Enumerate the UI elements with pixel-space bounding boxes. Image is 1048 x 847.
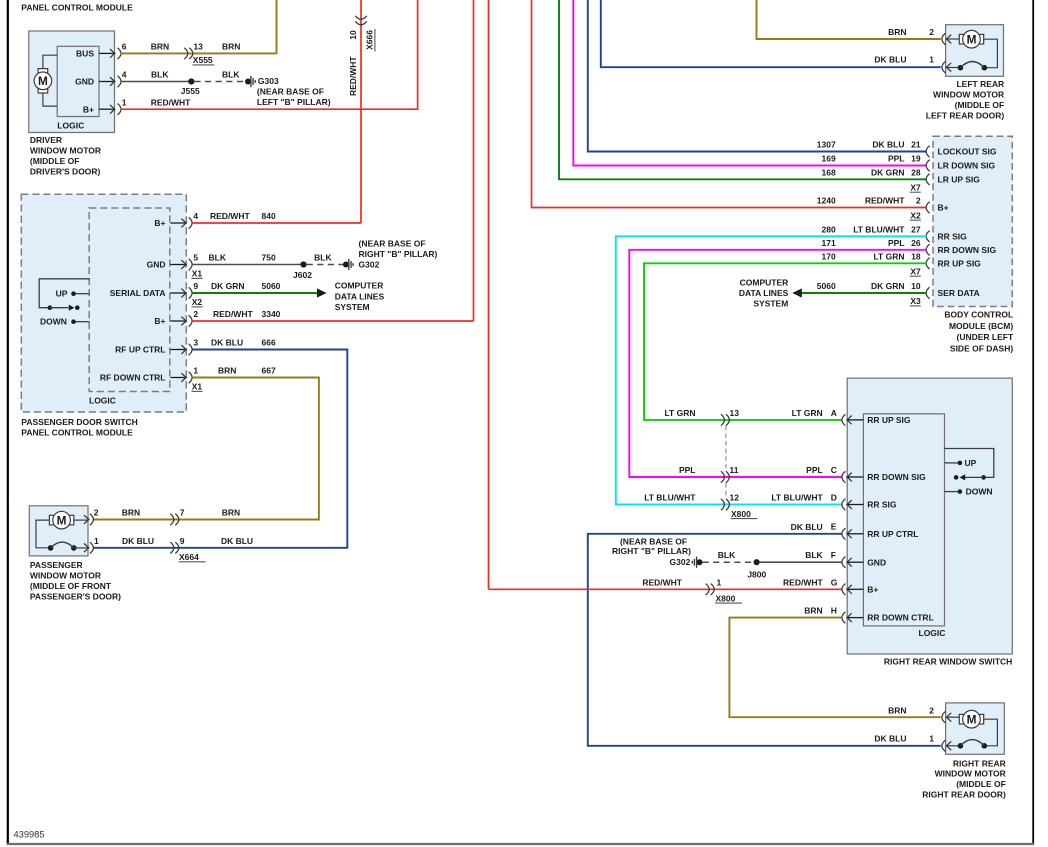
svg-text:X800: X800 (731, 509, 751, 519)
BCM pin 28 connector (926, 174, 930, 185)
wire RED/WHT 1240 vertical feed to BCM B+ (532, 0, 927, 208)
svg-text:2: 2 (929, 705, 934, 715)
ground G303 (245, 79, 251, 85)
left rear motor pin 2 connector and arrow (942, 33, 946, 44)
motor lead and brush return (left rear) (983, 39, 997, 67)
switch pin C connector and arrow (842, 471, 846, 482)
svg-text:SIDE OF DASH): SIDE OF DASH) (950, 343, 1013, 353)
connector X800 dashed alignment line (725, 426, 727, 471)
passenger switch pin GND (5) stub and arrow (171, 264, 186, 266)
svg-text:B+: B+ (154, 218, 165, 228)
svg-text:7: 7 (180, 507, 185, 517)
svg-text:LT GRN: LT GRN (664, 408, 695, 418)
rocker switch wiper with dots and arrow (passenger switch) (48, 305, 53, 310)
svg-text:DK BLU: DK BLU (872, 140, 904, 150)
svg-text:1: 1 (94, 536, 99, 546)
svg-text:C: C (831, 465, 837, 475)
svg-text:M: M (967, 33, 977, 47)
svg-text:A: A (831, 408, 837, 418)
body control module BCM dashed box (933, 136, 1012, 306)
svg-text:DK BLU: DK BLU (874, 733, 906, 743)
svg-text:LEFT "B" PILLAR): LEFT "B" PILLAR) (257, 97, 331, 107)
svg-text:1: 1 (929, 733, 934, 743)
svg-text:10: 10 (348, 30, 358, 40)
svg-text:DK GRN: DK GRN (871, 281, 905, 291)
wire RED/WHT feed to right rear switch pin G B+ (489, 588, 843, 590)
svg-text:21: 21 (911, 140, 921, 150)
svg-text:RIGHT REAR: RIGHT REAR (953, 758, 1006, 768)
wire BLK 750 from passenger switch pin 5 GND to splice J602 (192, 264, 301, 266)
svg-text:X1: X1 (192, 382, 203, 392)
driver motor pin 6 BUS stub and arrow (99, 52, 114, 54)
driver window motor outer box (29, 31, 115, 133)
svg-text:X2: X2 (192, 297, 203, 307)
svg-text:PASSENGER: PASSENGER (30, 560, 83, 570)
connector X800 arcs on LT BLU/WHT (pin 12) (721, 499, 725, 510)
svg-text:LT BLU/WHT: LT BLU/WHT (771, 493, 823, 503)
svg-text:PPL: PPL (679, 465, 696, 475)
svg-text:11: 11 (730, 465, 739, 475)
svg-text:J602: J602 (293, 270, 312, 280)
passenger switch pin B+ (4) stub and arrow (171, 222, 186, 224)
switch pin D connector and arrow (842, 499, 846, 510)
svg-text:3: 3 (193, 338, 198, 348)
svg-text:BRN: BRN (222, 507, 240, 517)
right rear motor pin 1 connector and arrow (942, 740, 946, 751)
svg-text:B+: B+ (154, 316, 165, 326)
svg-text:DK BLU: DK BLU (122, 536, 154, 546)
svg-text:DATA LINES: DATA LINES (739, 288, 789, 298)
svg-text:(NEAR BASE OF: (NEAR BASE OF (257, 86, 324, 96)
svg-text:RED/WHT: RED/WHT (348, 56, 358, 96)
wire PPL 171 from BCM pin 26 to right rear switch pin C (629, 250, 926, 477)
svg-text:840: 840 (262, 211, 276, 221)
svg-text:PASSENGER DOOR SWITCH: PASSENGER DOOR SWITCH (21, 417, 138, 427)
motor M symbol (right rear window motor) (946, 716, 961, 718)
svg-text:RR UP SIG: RR UP SIG (867, 415, 911, 425)
wire RED/WHT from driver motor pin 1 B+ up to power feed (121, 0, 418, 109)
svg-text:LR UP SIG: LR UP SIG (938, 174, 981, 184)
svg-text:6: 6 (122, 41, 127, 51)
svg-text:RR SIG: RR SIG (867, 500, 897, 510)
svg-text:12: 12 (730, 493, 740, 503)
passenger switch pin RF DOWN CTRL (1) stub and arrow (171, 377, 186, 379)
motor lead and brush return (passenger) (36, 520, 50, 548)
svg-text:DK BLU: DK BLU (874, 54, 906, 64)
svg-text:(UNDER LEFT: (UNDER LEFT (957, 332, 1014, 342)
svg-text:(NEAR BASE OF: (NEAR BASE OF (359, 239, 426, 249)
wire DK GRN 168 from top to BCM pin 28 LR UP SIG (559, 0, 927, 179)
svg-text:DOWN: DOWN (966, 487, 993, 497)
BCM pin 27 connector (926, 231, 930, 242)
svg-text:RF UP CTRL: RF UP CTRL (115, 345, 165, 355)
svg-text:X1: X1 (192, 269, 203, 279)
svg-text:SER DATA: SER DATA (938, 288, 980, 298)
svg-text:169: 169 (822, 154, 836, 164)
wire DK BLU from top to left rear window motor pin 1 (601, 0, 941, 67)
svg-text:5060: 5060 (817, 281, 836, 291)
svg-text:DRIVER: DRIVER (30, 135, 62, 145)
switch pin A connector and arrow (842, 414, 846, 425)
svg-text:BRN: BRN (888, 27, 906, 37)
svg-text:(MIDDLE OF FRONT: (MIDDLE OF FRONT (30, 581, 112, 591)
svg-text:X666: X666 (364, 30, 374, 50)
svg-text:E: E (831, 522, 837, 532)
brush bridge arc with dots (left rear) (946, 67, 961, 69)
svg-text:13: 13 (193, 41, 203, 51)
passenger switch pin SERIAL DATA (9) stub and arrow (171, 292, 186, 294)
svg-text:X7: X7 (910, 182, 921, 192)
svg-text:1: 1 (717, 577, 722, 587)
svg-text:DOWN: DOWN (40, 316, 67, 326)
svg-text:1: 1 (193, 366, 198, 376)
svg-text:WINDOW MOTOR: WINDOW MOTOR (30, 571, 101, 581)
svg-text:X2: X2 (910, 210, 921, 220)
svg-text:1: 1 (122, 97, 127, 107)
wire BRN from right rear switch pin H to right rear motor pin 2 (729, 618, 940, 718)
svg-text:26: 26 (911, 238, 921, 248)
wire BLK dashed from G302 to splice J800 (703, 561, 754, 563)
svg-text:BLK: BLK (718, 550, 736, 560)
wire RED/WHT 10 through connector X666 down to passenger switch B+ (360, 0, 362, 223)
wire DK BLU 1307 from top to BCM pin 21 LOCKOUT SIG (588, 0, 927, 152)
svg-text:LT BLU/WHT: LT BLU/WHT (853, 224, 905, 234)
svg-text:RED/WHT: RED/WHT (865, 196, 905, 206)
wire BRN 667 from passenger switch pin 1 RF DOWN CTRL to passenger motor pin 2 (93, 378, 319, 520)
svg-text:RIGHT "B" PILLAR): RIGHT "B" PILLAR) (612, 546, 691, 556)
svg-text:2: 2 (929, 27, 934, 37)
connector X800 arcs on LT GRN (pin 13) (721, 414, 725, 425)
motor M1 symbol (driver window motor) (38, 69, 48, 73)
wire BLK from driver motor pin 4 to splice J555 (121, 81, 192, 83)
svg-text:SERIAL DATA: SERIAL DATA (110, 288, 166, 298)
switch pin F connector and arrow (842, 557, 846, 568)
svg-text:DK GRN: DK GRN (871, 167, 905, 177)
svg-text:RIGHT REAR DOOR): RIGHT REAR DOOR) (922, 789, 1006, 799)
passenger window motor box (29, 506, 88, 556)
motor M symbol (left rear window motor) (946, 38, 961, 40)
svg-text:BRN: BRN (804, 606, 822, 616)
svg-text:RR UP CTRL: RR UP CTRL (867, 529, 918, 539)
wire BLK from splice J800 to right rear switch pin F GND (760, 561, 843, 563)
svg-text:RR SIG: RR SIG (938, 231, 968, 241)
svg-text:M: M (38, 74, 48, 88)
svg-text:LOGIC: LOGIC (919, 628, 946, 638)
svg-text:RED/WHT: RED/WHT (210, 211, 250, 221)
brush bridge arc with dots (passenger) (48, 545, 54, 551)
svg-text:WINDOW MOTOR: WINDOW MOTOR (935, 769, 1006, 779)
svg-text:27: 27 (911, 224, 921, 234)
svg-text:19: 19 (911, 154, 921, 164)
wire LT GRN 170 from BCM pin 18 to right rear switch pin A (644, 263, 927, 420)
svg-text:MODULE (BCM): MODULE (BCM) (949, 321, 1013, 331)
svg-text:RIGHT "B" PILLAR): RIGHT "B" PILLAR) (359, 249, 438, 259)
svg-text:WINDOW MOTOR: WINDOW MOTOR (933, 90, 1004, 100)
BCM pin 19 connector (926, 160, 930, 171)
svg-text:280: 280 (822, 224, 836, 234)
svg-text:DK BLU: DK BLU (791, 522, 823, 532)
svg-text:1307: 1307 (817, 140, 836, 150)
svg-text:1: 1 (929, 54, 934, 64)
passenger door switch outer dashed box (21, 194, 186, 412)
svg-text:GND: GND (75, 77, 94, 87)
right rear window switch logic box (863, 414, 944, 626)
svg-text:170: 170 (822, 251, 836, 261)
rocker switch DOWN contact (right rear switch) (945, 491, 960, 493)
svg-text:439985: 439985 (14, 830, 45, 840)
wire BLK dashed from J602 to ground G302 (307, 264, 343, 266)
svg-text:DATA LINES: DATA LINES (335, 291, 385, 301)
rocker switch common bracket (right rear switch) (945, 449, 994, 478)
svg-text:13: 13 (730, 408, 740, 418)
svg-text:LT BLU/WHT: LT BLU/WHT (644, 493, 696, 503)
svg-text:GND: GND (147, 260, 166, 270)
passenger door switch logic dashed box (89, 208, 170, 392)
svg-text:4: 4 (193, 211, 198, 221)
svg-text:(MIDDLE OF: (MIDDLE OF (30, 156, 80, 166)
svg-text:J800: J800 (747, 569, 766, 579)
svg-text:BLK: BLK (209, 253, 227, 263)
svg-text:DK BLU: DK BLU (221, 536, 253, 546)
left rear motor pin 1 connector and arrow (942, 62, 946, 73)
svg-text:18: 18 (911, 251, 921, 261)
svg-text:G302: G302 (359, 260, 380, 270)
wire BLK dashed to ground G303 (194, 81, 245, 83)
svg-text:RR DOWN SIG: RR DOWN SIG (867, 472, 926, 482)
svg-text:RED/WHT: RED/WHT (783, 577, 823, 587)
passenger motor pin 2 arrow and connector (87, 519, 89, 521)
diagram frame bottom border (7, 843, 1034, 845)
svg-text:H: H (831, 606, 837, 616)
svg-text:BRN: BRN (218, 366, 236, 376)
svg-text:SYSTEM: SYSTEM (335, 302, 370, 312)
wire DK GRN 5060 from BCM pin 10 to computer data lines (arrow left) (794, 292, 927, 294)
svg-text:BLK: BLK (314, 253, 332, 263)
svg-text:PANEL CONTROL MODULE: PANEL CONTROL MODULE (21, 427, 133, 437)
svg-text:B+: B+ (867, 584, 878, 594)
svg-text:LEFT REAR DOOR): LEFT REAR DOOR) (926, 111, 1005, 121)
svg-text:2: 2 (94, 507, 99, 517)
rocker switch common bracket (passenger switch) (39, 279, 89, 308)
connector X666 inline arcs (vertical) (355, 16, 366, 19)
diagram frame left border (7, 0, 9, 845)
svg-text:UP: UP (56, 288, 68, 298)
connector X664 arcs on BRN (pin 7) (170, 514, 174, 525)
svg-text:BUS: BUS (76, 48, 94, 58)
svg-text:BLK: BLK (222, 70, 240, 80)
svg-text:GND: GND (867, 557, 886, 567)
svg-text:RED/WHT: RED/WHT (642, 577, 682, 587)
svg-text:BODY CONTROL: BODY CONTROL (944, 310, 1013, 320)
switch pin H connector and arrow (842, 612, 846, 623)
svg-text:PANEL CONTROL MODULE: PANEL CONTROL MODULE (21, 2, 133, 12)
wire PPL 169 from top to BCM pin 19 LR DOWN SIG (573, 0, 926, 166)
brush bridge arc with dots (right rear) (946, 745, 961, 747)
svg-text:B+: B+ (83, 104, 94, 114)
driver motor pin 1 B+ stub and arrow (99, 108, 114, 110)
driver window motor logic box (57, 46, 99, 116)
motor M symbol (passenger window motor) (49, 515, 53, 525)
svg-text:X664: X664 (179, 552, 199, 562)
wire RED/WHT vertical feed to passenger switch B+ 3340 (473, 0, 475, 321)
right rear window switch outer box (847, 378, 1012, 654)
connector X800 arcs on PPL (pin 11) (721, 471, 725, 482)
svg-text:DRIVER'S DOOR): DRIVER'S DOOR) (30, 167, 101, 177)
svg-text:168: 168 (822, 167, 836, 177)
svg-text:LR DOWN SIG: LR DOWN SIG (938, 161, 996, 171)
svg-text:G: G (831, 577, 838, 587)
rocker switch wiper with dots and arrow (981, 475, 986, 480)
right rear motor pin 2 connector and arrow (942, 712, 946, 723)
svg-text:BLK: BLK (805, 550, 823, 560)
svg-text:(MIDDLE OF: (MIDDLE OF (956, 779, 1006, 789)
svg-text:667: 667 (262, 366, 276, 376)
wire DK GRN 5060 serial data to computer data lines (arrow right) (192, 292, 317, 294)
svg-text:M: M (57, 514, 67, 528)
svg-text:666: 666 (262, 338, 276, 348)
svg-text:X555: X555 (193, 55, 213, 65)
svg-text:RIGHT REAR WINDOW SWITCH: RIGHT REAR WINDOW SWITCH (884, 657, 1012, 667)
svg-text:1240: 1240 (817, 196, 836, 206)
svg-text:4: 4 (122, 70, 127, 80)
svg-text:LOGIC: LOGIC (57, 120, 84, 130)
svg-text:X800: X800 (716, 593, 736, 603)
svg-text:COMPUTER: COMPUTER (335, 280, 384, 290)
svg-text:LEFT REAR: LEFT REAR (956, 79, 1004, 89)
svg-text:B+: B+ (938, 203, 949, 213)
svg-text:X3: X3 (910, 296, 921, 306)
svg-text:LT GRN: LT GRN (792, 408, 823, 418)
svg-text:9: 9 (193, 281, 198, 291)
right rear window motor box (946, 703, 1005, 754)
svg-text:5060: 5060 (262, 281, 281, 291)
svg-text:LOGIC: LOGIC (89, 396, 116, 406)
BCM pin 2 connector (926, 202, 930, 213)
motor leads to logic box (43, 55, 57, 68)
svg-text:RR DOWN CTRL: RR DOWN CTRL (867, 613, 934, 623)
svg-text:750: 750 (262, 253, 276, 263)
svg-text:RR DOWN SIG: RR DOWN SIG (938, 245, 997, 255)
svg-text:G303: G303 (258, 76, 279, 86)
svg-text:3340: 3340 (262, 309, 281, 319)
wire DK BLU from right rear switch pin E to right rear motor pin 1 (588, 534, 941, 746)
svg-text:X7: X7 (910, 266, 921, 276)
splice J602 (300, 261, 306, 267)
left rear window motor box (946, 25, 1004, 77)
passenger switch pin RF UP CTRL (3) stub and arrow (171, 349, 186, 351)
wire LT BLU/WHT 280 from BCM pin 27 to right rear switch pin D (616, 236, 927, 504)
svg-text:J555: J555 (181, 86, 200, 96)
svg-text:G302: G302 (670, 557, 691, 567)
svg-text:(MIDDLE OF: (MIDDLE OF (955, 100, 1005, 110)
svg-text:RR UP SIG: RR UP SIG (938, 258, 982, 268)
svg-text:2: 2 (193, 309, 198, 319)
svg-text:BRN: BRN (151, 41, 169, 51)
svg-text:9: 9 (180, 536, 185, 546)
splice J800 (754, 559, 760, 565)
svg-text:WINDOW MOTOR: WINDOW MOTOR (30, 146, 101, 156)
svg-text:10: 10 (911, 281, 921, 291)
svg-text:PASSENGER'S DOOR): PASSENGER'S DOOR) (30, 592, 121, 602)
svg-text:BRN: BRN (222, 41, 240, 51)
svg-text:F: F (831, 550, 836, 560)
svg-text:RF DOWN CTRL: RF DOWN CTRL (100, 373, 166, 383)
wire RED/WHT vertical feed to right rear switch B+ (488, 0, 490, 589)
svg-text:D: D (831, 493, 837, 503)
svg-text:PPL: PPL (806, 465, 823, 475)
connector X800 arcs on RED/WHT (pin 1) (706, 584, 710, 595)
passenger switch pin B+ (2) stub and arrow (171, 320, 186, 322)
svg-text:RED/WHT: RED/WHT (151, 97, 191, 107)
rocker switch UP contact (right rear switch) (945, 462, 960, 464)
motor lead and brush return (right rear) (983, 719, 997, 746)
svg-text:BRN: BRN (122, 507, 140, 517)
connector X555 inline arcs (184, 48, 188, 59)
svg-text:COMPUTER: COMPUTER (740, 277, 789, 287)
svg-text:SYSTEM: SYSTEM (753, 298, 788, 308)
svg-text:BRN: BRN (888, 705, 906, 715)
BCM pin 18 connector (926, 258, 930, 269)
wire BRN from driver motor pin 6 to panel control module (up) (121, 0, 277, 53)
driver motor pin 4 GND stub and arrow (99, 81, 114, 83)
svg-text:DK BLU: DK BLU (211, 338, 243, 348)
svg-text:PPL: PPL (888, 154, 905, 164)
wire BRN from top to left rear window motor pin 2 (757, 0, 941, 39)
svg-text:5: 5 (193, 253, 198, 263)
BCM pin 10 connector (926, 287, 930, 298)
wire DK BLU 666 from passenger switch pin 3 RF UP CTRL to passenger motor pin 1 (94, 350, 347, 548)
connector X664 arcs on DK BLU (pin 9) (170, 542, 174, 553)
ground G302 (near base of right B pillar, left side) (343, 262, 349, 268)
svg-text:DK GRN: DK GRN (211, 281, 245, 291)
wire RED/WHT 840 from passenger switch pin 4 B+ to X666 feed (192, 222, 361, 224)
svg-text:M: M (967, 713, 977, 727)
splice J555 (188, 78, 194, 84)
svg-text:(NEAR BASE OF: (NEAR BASE OF (620, 536, 687, 546)
passenger motor pin 1 arrow and connector (87, 547, 89, 549)
svg-text:28: 28 (911, 167, 921, 177)
svg-text:LOCKOUT SIG: LOCKOUT SIG (938, 147, 997, 157)
switch pin G connector and arrow (842, 584, 846, 595)
svg-text:BLK: BLK (151, 70, 169, 80)
svg-text:UP: UP (965, 458, 977, 468)
svg-text:PPL: PPL (888, 238, 905, 248)
BCM pin 21 connector (926, 146, 930, 157)
svg-text:LT GRN: LT GRN (873, 251, 904, 261)
BCM pin 26 connector (926, 244, 930, 255)
wire RED/WHT 3340 from passenger switch pin 2 B+ to vertical feed (192, 320, 474, 322)
switch pin E connector and arrow (842, 528, 846, 539)
svg-text:2: 2 (916, 196, 921, 206)
svg-text:171: 171 (822, 238, 836, 248)
svg-text:RED/WHT: RED/WHT (213, 309, 253, 319)
diagram frame right border (1032, 0, 1034, 845)
